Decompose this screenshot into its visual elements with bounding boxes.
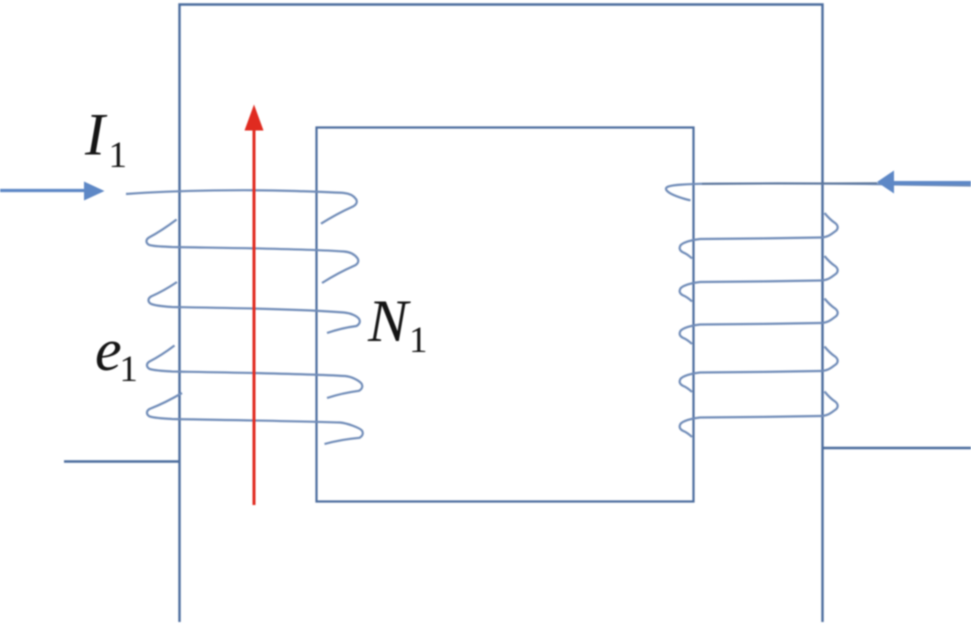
terminal lead bottom-right bbox=[822, 447, 971, 450]
svg-text:I1: I1 bbox=[84, 102, 127, 177]
core window inner rectangle bbox=[317, 128, 694, 502]
current arrow right (pointing left) bbox=[877, 171, 971, 194]
secondary winding (right leg coil) bbox=[666, 183, 971, 437]
svg-text:N1: N1 bbox=[367, 288, 428, 361]
terminal lead bottom-left bbox=[64, 460, 180, 463]
red flux arrow bbox=[245, 105, 264, 506]
current arrow I1 (left, pointing right) bbox=[0, 182, 105, 201]
svg-text:e1: e1 bbox=[95, 317, 138, 390]
primary winding N1 (left leg coil) bbox=[126, 190, 363, 444]
core outer rectangle bbox=[180, 5, 823, 623]
wire from right arrow to secondary coil bbox=[702, 182, 877, 185]
